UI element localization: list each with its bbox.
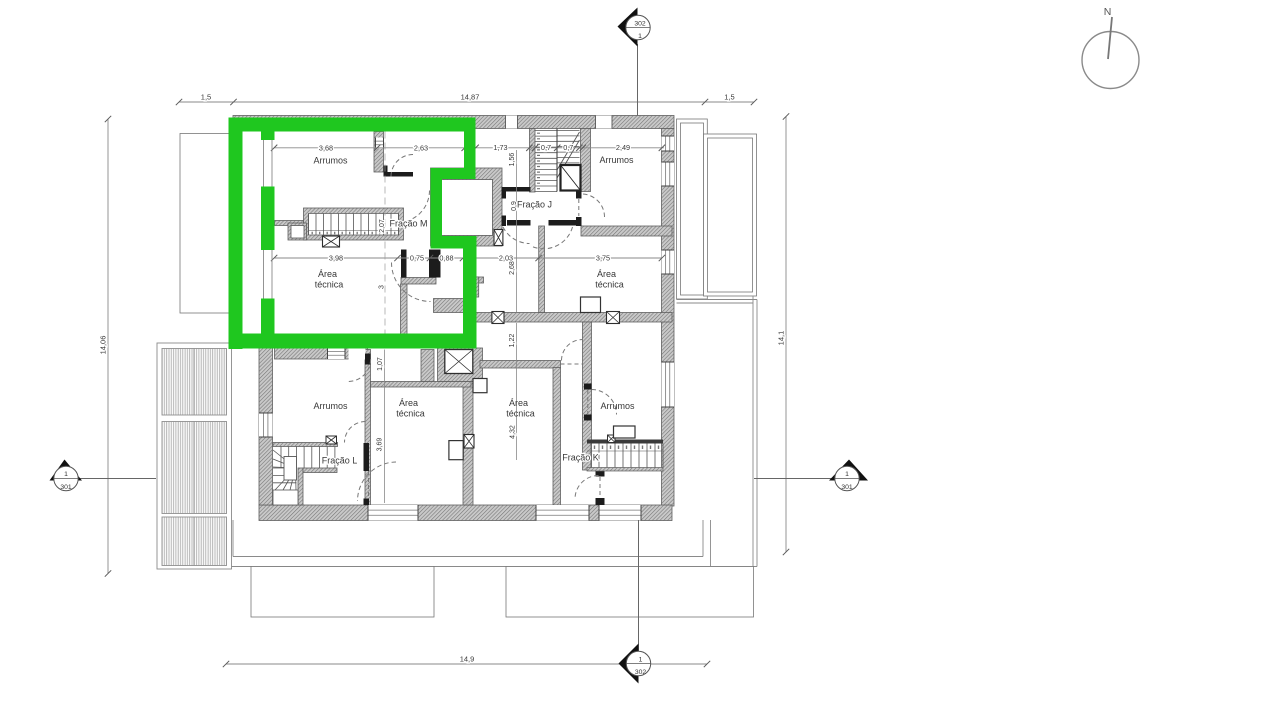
stair treads fracao K xyxy=(591,444,663,468)
duct box shaft corner xyxy=(494,230,503,246)
window lines green unit wall xyxy=(263,140,265,187)
svg-text:14,1: 14,1 xyxy=(777,331,786,346)
elevator shaft interior xyxy=(442,180,493,236)
svg-text:2,03: 2,03 xyxy=(499,254,513,263)
black wall fracao J left lower xyxy=(502,216,507,227)
black wall fracao J right lower xyxy=(576,217,582,226)
svg-text:Área: Área xyxy=(597,269,616,279)
black wall fracao J left upper xyxy=(502,192,507,199)
svg-text:1: 1 xyxy=(845,471,849,478)
wall elevator shaft block xyxy=(431,168,503,246)
svg-text:302: 302 xyxy=(635,669,647,676)
black wall fracao J bottom right xyxy=(549,220,577,226)
wall vertical between tecnica and stair xyxy=(553,368,561,506)
door arc fracao J to arrumos xyxy=(582,194,605,217)
svg-text:1,5: 1,5 xyxy=(724,93,734,102)
rail stair K bottom xyxy=(587,468,663,472)
svg-text:Arrumos: Arrumos xyxy=(600,401,635,411)
door arc arrumos right lower xyxy=(592,390,617,415)
black wall fracao J bottom left xyxy=(507,220,531,226)
section marker left 1/301 xyxy=(50,460,157,492)
black wall above fracao J xyxy=(502,187,531,192)
dimension vertical 1,22 4,32 xyxy=(516,323,518,460)
window right wall 2 xyxy=(662,162,675,186)
niche box above stair K xyxy=(614,426,636,438)
wall outer left lower xyxy=(259,347,273,505)
svg-text:1: 1 xyxy=(639,657,643,664)
black wall top-middle room door L xyxy=(384,172,414,177)
door gap lower arrumos top wall xyxy=(349,348,366,360)
north arrow xyxy=(1082,6,1139,89)
wall horizontal mid right xyxy=(476,313,672,323)
wall outer right xyxy=(662,129,675,507)
window lower arrumos wall xyxy=(328,348,346,359)
svg-text:1: 1 xyxy=(64,471,68,478)
svg-text:Fração M: Fração M xyxy=(389,219,427,229)
wall vestibule bottom xyxy=(371,382,472,388)
svg-text:2,49: 2,49 xyxy=(616,143,630,152)
svg-text:Área: Área xyxy=(509,398,528,408)
wall vertical mid lower xyxy=(463,382,473,506)
svg-text:2,07: 2,07 xyxy=(379,219,386,233)
terrace outline bottom tier2 left xyxy=(251,567,434,618)
door arc fracao K xyxy=(575,476,599,500)
wall small room top-middle xyxy=(374,132,384,173)
dimension line top xyxy=(179,101,754,103)
wall stairwell right xyxy=(581,129,591,192)
black wall fracao K door top xyxy=(596,470,605,477)
svg-text:14,9: 14,9 xyxy=(460,655,475,664)
door jamb arrumos right top xyxy=(584,384,592,390)
svg-text:3,98: 3,98 xyxy=(329,254,343,263)
svg-text:Arrumos: Arrumos xyxy=(313,156,348,166)
wall arrumos right under xyxy=(581,226,672,236)
stair lower landing fracao L xyxy=(273,490,298,505)
svg-text:N: N xyxy=(1104,6,1112,18)
wall vestibule right xyxy=(421,350,434,382)
door arc small room top xyxy=(391,155,413,177)
dimension vertical 2,07 green unit xyxy=(384,132,386,335)
svg-text:2,63: 2,63 xyxy=(414,143,428,152)
svg-text:0,88: 0,88 xyxy=(439,254,453,263)
wall lower arrumos top xyxy=(275,348,368,359)
wall closet bottom xyxy=(401,278,436,285)
door jamb arrumos right bottom xyxy=(584,415,592,421)
deck terrace left with boards xyxy=(157,343,232,569)
wall stairwell left xyxy=(530,129,536,193)
wall stub right of green xyxy=(476,277,484,283)
svg-text:Fração K: Fração K xyxy=(562,453,599,463)
green unit highlight outline xyxy=(229,118,476,132)
duct box mid wall 2 xyxy=(607,312,620,324)
skylight box with cross xyxy=(445,350,473,374)
shaft square with diagonal xyxy=(561,165,581,191)
svg-text:Área: Área xyxy=(318,269,337,279)
svg-text:1,73: 1,73 xyxy=(493,143,507,152)
wall rail stair L xyxy=(273,443,338,447)
terrace outline top-right xyxy=(704,134,757,296)
dimension line upper interior xyxy=(274,147,664,149)
door jamb fracao M right xyxy=(429,250,441,278)
wall green unit inner lower xyxy=(401,284,408,334)
svg-text:0,7: 0,7 xyxy=(563,143,573,152)
window top wall 2 xyxy=(596,116,613,129)
terrace outline bottom tier1 xyxy=(226,520,228,567)
door arc fracao J lower left xyxy=(503,227,530,244)
black wall fracao K door bottom xyxy=(596,498,605,505)
svg-text:Fração J: Fração J xyxy=(517,200,552,210)
door arc fracao J lower right xyxy=(531,227,573,249)
dimension line mid interior xyxy=(274,257,662,259)
wall top of lower area tecnica right xyxy=(480,361,561,369)
door arc corridor shaft xyxy=(398,191,430,223)
door jamb vestibule xyxy=(365,354,371,365)
wall skylight surround xyxy=(438,348,483,382)
svg-text:3,75: 3,75 xyxy=(596,254,610,263)
svg-text:1,5: 1,5 xyxy=(201,93,211,102)
dimension vertical 1,07 3,69 xyxy=(384,350,386,504)
window small room wall xyxy=(376,138,384,149)
stair landing box xyxy=(288,223,307,240)
wall below shaft xyxy=(434,299,476,313)
svg-text:técnica: técnica xyxy=(315,280,344,290)
svg-text:Arrumos: Arrumos xyxy=(313,401,348,411)
rail stair K xyxy=(587,440,663,444)
dimension vertical 1,56 0,9 2,68 xyxy=(516,150,518,313)
svg-text:1,07: 1,07 xyxy=(377,357,384,371)
svg-text:2,68: 2,68 xyxy=(509,261,516,275)
terrace outline top-left xyxy=(180,134,229,314)
svg-text:Área: Área xyxy=(399,398,418,408)
wall under treads L xyxy=(303,468,337,473)
black wall fracao L door top xyxy=(364,443,370,471)
terrace outline bottom tier2 right xyxy=(506,567,754,618)
black wall fracao J right upper xyxy=(576,192,582,199)
svg-text:301: 301 xyxy=(841,484,853,491)
wall outer top xyxy=(233,116,674,129)
wall vertical arrumos lower right xyxy=(583,322,592,470)
stair band frame fracao M xyxy=(304,208,404,240)
section marker top 302/1 xyxy=(618,8,651,116)
door gap dashes xyxy=(368,471,370,499)
svg-text:14,87: 14,87 xyxy=(461,93,480,102)
wall stair connector xyxy=(275,221,304,226)
svg-text:1,56: 1,56 xyxy=(509,153,516,167)
dimension line right 14,1 xyxy=(785,117,787,553)
svg-text:14,06: 14,06 xyxy=(99,336,108,355)
window right wall 4 xyxy=(662,362,675,407)
door arc arrumos to stair L xyxy=(345,422,366,443)
duct box mid wall 1 xyxy=(492,312,504,324)
svg-text:1: 1 xyxy=(638,33,642,40)
duct box under stair M xyxy=(323,236,340,247)
window bottom wall 1 xyxy=(368,505,418,521)
window top wall 1 xyxy=(506,116,518,129)
stair break line fracao J xyxy=(557,132,580,178)
svg-text:0,7: 0,7 xyxy=(541,143,551,152)
dimension line left 14,06 xyxy=(107,119,109,574)
duct box stair K xyxy=(608,435,616,443)
wall stub vertical xyxy=(476,277,479,297)
svg-text:técnica: técnica xyxy=(595,280,624,290)
wall vertical lower-left unit right xyxy=(365,350,371,506)
door arc corridor lower xyxy=(358,462,397,501)
svg-text:técnica: técnica xyxy=(506,409,535,419)
svg-text:Arrumos: Arrumos xyxy=(599,155,634,165)
dimension line bottom 14,9 xyxy=(226,663,707,665)
svg-text:4,32: 4,32 xyxy=(510,425,517,439)
niche box right of wall xyxy=(473,379,487,393)
balcony outline right narrow xyxy=(677,119,708,299)
duct box wall mid lower xyxy=(464,435,474,449)
niche box area tecnica xyxy=(449,441,463,460)
door arc vestibule xyxy=(348,359,370,381)
svg-text:302: 302 xyxy=(634,21,646,28)
wall corridor right vertical xyxy=(539,226,545,313)
stair winder fan fracao L xyxy=(273,450,296,490)
stair treads fracao J upper xyxy=(535,131,557,192)
svg-text:3,69: 3,69 xyxy=(377,438,384,452)
window left wall xyxy=(259,413,273,437)
window bottom wall 2 xyxy=(536,505,589,521)
wall outer bottom xyxy=(259,505,672,521)
section marker bottom 1/302 xyxy=(619,520,651,684)
svg-text:Fração L: Fração L xyxy=(322,456,358,466)
section marker right 1/301 xyxy=(754,460,868,492)
svg-text:3: 3 xyxy=(379,285,386,289)
svg-text:3,68: 3,68 xyxy=(319,143,333,152)
window bottom wall 3 xyxy=(599,505,641,521)
svg-text:1,22: 1,22 xyxy=(509,334,516,348)
door arc fracao M hall xyxy=(392,263,431,302)
stair treads fracao M xyxy=(309,214,399,236)
window right wall 3 xyxy=(662,250,675,274)
stair pivot box fracao L xyxy=(284,457,297,481)
svg-text:0,75: 0,75 xyxy=(410,254,424,263)
window right wall 1 xyxy=(662,136,675,151)
wall stair L side xyxy=(298,468,303,505)
svg-text:técnica: técnica xyxy=(396,409,425,419)
niche box above mid wall xyxy=(581,297,601,313)
stair treads fracao L xyxy=(281,447,335,469)
duct box stair L xyxy=(326,436,337,444)
black wall fracao L door bottom xyxy=(364,499,370,506)
door jamb fracao M left xyxy=(401,250,407,278)
svg-text:301: 301 xyxy=(60,484,72,491)
door arc area tecnica right xyxy=(562,340,583,361)
terrace outline lower-right xyxy=(752,296,754,567)
